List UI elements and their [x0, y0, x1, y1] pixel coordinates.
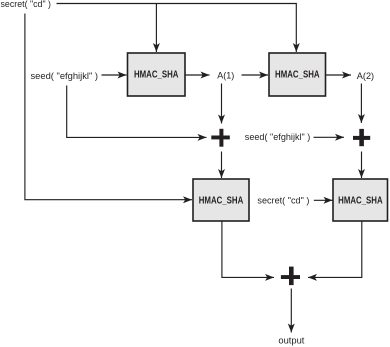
svg-text:HMAC_SHA: HMAC_SHA	[338, 195, 383, 206]
svg-text:HMAC_SHA: HMAC_SHA	[134, 70, 179, 81]
svg-text:A(2): A(2)	[357, 71, 374, 81]
svg-text:HMAC_SHA: HMAC_SHA	[275, 70, 320, 81]
svg-text:seed( "efghijkl" ): seed( "efghijkl" )	[31, 71, 99, 81]
svg-text:secret( "cd" ): secret( "cd" )	[1, 0, 52, 9]
svg-text:output: output	[278, 335, 304, 345]
svg-text:HMAC_SHA: HMAC_SHA	[199, 195, 244, 206]
svg-text:A(1): A(1)	[217, 71, 234, 81]
svg-text:seed( "efghijkl" ): seed( "efghijkl" )	[245, 132, 310, 142]
svg-text:secret( "cd" ): secret( "cd" )	[257, 195, 309, 205]
